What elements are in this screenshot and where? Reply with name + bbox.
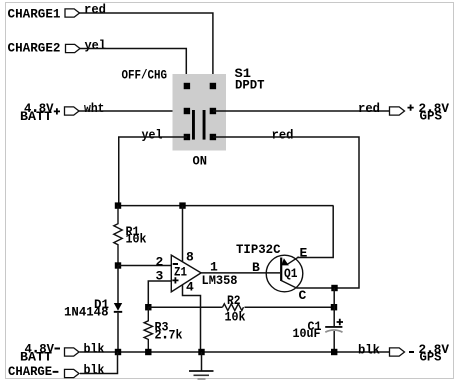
connector GPS+ [390,107,405,115]
node junction bottom D1 [115,349,121,355]
collector line [281,281,297,289]
node junction pin3/R3/R2 [145,304,151,310]
wire pin4 to ground rail [183,285,201,352]
wire op-amp output to base [201,272,280,274]
svg-text:blk: blk [84,363,105,378]
wire collector to node [297,287,335,289]
svg-text:10k: 10k [126,232,147,247]
wire pin8 [182,206,184,262]
transistor Q1 [266,255,303,292]
wire CHARGE- up to bottom rail [80,352,118,374]
svg-text:CHARGE-: CHARGE- [8,364,60,379]
node junction top rail left [115,202,121,208]
S1 contacts middle row [184,108,190,114]
S1 contacts ON row [184,134,190,140]
svg-text:LM358: LM358 [202,273,238,288]
node junction collector [331,285,337,291]
svg-text:yel: yel [85,38,107,53]
resistor R2 [223,304,244,311]
connector BATT- [65,348,80,356]
plus sign C1 [337,319,343,325]
svg-text:red: red [272,127,294,142]
svg-text:4: 4 [186,280,194,295]
svg-text:E: E [300,246,308,261]
svg-text:C: C [299,288,307,303]
svg-text:red: red [84,2,106,17]
svg-text:blk: blk [358,342,380,357]
svg-text:Q1: Q1 [284,266,298,281]
svg-text:yel: yel [142,127,163,142]
svg-text:TIP32C: TIP32C [236,242,281,257]
resistor R1 [114,206,122,266]
wire pin3 [148,281,171,307]
svg-text:OFF/CHG: OFF/CHG [122,67,168,82]
svg-text:Z1: Z1 [174,265,187,280]
emitter line [288,257,299,264]
svg-text:2.7k: 2.7k [155,327,183,342]
connector CHARGE2 [66,44,81,52]
wire wht BATT+ to S1 [79,110,187,112]
ground [201,352,203,371]
resistor R3 [144,307,152,352]
minus sign BATT- [55,348,61,350]
emitter arrow [281,258,288,265]
op-amp minus [173,263,178,265]
emitter riser wire [297,206,333,258]
minus sign GPS- [409,351,414,353]
wire pin2 [118,265,171,267]
node junction pin2 [115,262,121,268]
svg-text:wht: wht [84,101,105,116]
svg-text:8: 8 [186,250,194,265]
diode D1 [117,266,119,304]
svg-text:R2: R2 [227,293,241,308]
S1 pole bars [192,110,195,140]
connector GPS- [390,348,405,356]
switch S1 body [173,74,227,151]
top rail wire [118,205,334,207]
bottom rail wire [80,351,390,353]
connector CHARGE- [65,369,80,377]
svg-text:CHARGE1: CHARGE1 [8,7,61,22]
svg-text:B: B [252,260,260,275]
node junction bottom C1 [331,349,337,355]
node junction bottom R3 [145,349,151,355]
wire red S1 lower-right down to collector node [213,137,359,288]
wire R2 row left [148,306,222,308]
S1 contacts row OFF/CHG [184,83,190,89]
period dots reinforcement [34,109,36,111]
svg-text:ON: ON [193,154,208,169]
svg-text:10uF: 10uF [293,326,321,341]
op-amp plus [172,277,178,283]
node junction R2/C1 [331,304,337,310]
capacitor C1 [333,288,335,326]
svg-text:red: red [358,101,380,116]
op-amp Z1 LM358 [171,255,201,292]
connector CHARGE1 [65,9,80,17]
svg-text:1N4148: 1N4148 [64,304,109,319]
wire red CHARGE1 to S1 [80,13,213,84]
connector BATT+ [65,107,80,115]
plus sign BATT+ [54,108,60,114]
svg-text:DPDT: DPDT [235,77,265,92]
svg-text:blk: blk [84,342,105,357]
svg-text:2: 2 [156,254,164,269]
svg-text:CHARGE2: CHARGE2 [8,41,61,56]
wire S1 middle right to GPS+ [213,110,390,112]
wire yel S1 lower-left down to top rail [119,137,187,206]
plus sign GPS+ [408,105,414,111]
node junction pin8 tap [179,202,185,208]
wire yel CHARGE2 to S1 [80,49,186,85]
svg-text:10k: 10k [225,309,246,324]
node junction bottom ground [198,349,204,355]
